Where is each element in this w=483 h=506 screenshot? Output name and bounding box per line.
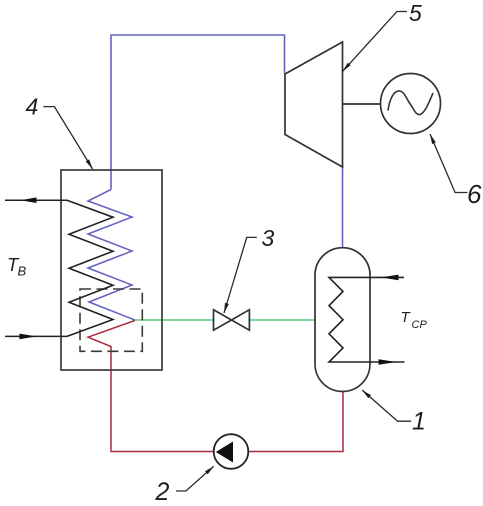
- svg-text:2: 2: [155, 478, 170, 506]
- svg-text:CP: CP: [412, 319, 428, 331]
- svg-text:4: 4: [26, 94, 39, 120]
- svg-text:6: 6: [467, 179, 482, 209]
- svg-text:B: B: [18, 264, 27, 279]
- svg-text:3: 3: [262, 225, 275, 251]
- svg-text:5: 5: [409, 0, 422, 26]
- svg-text:1: 1: [412, 408, 426, 436]
